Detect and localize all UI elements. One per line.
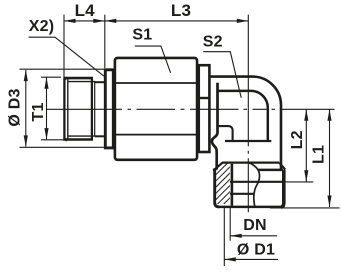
thread major top [63, 77, 93, 80]
D3 reference top [20, 68, 117, 70]
nut top face [222, 161, 279, 163]
dimension D1 line [224, 258, 278, 260]
hex flat edge bottom [114, 134, 198, 136]
nut bottom face [219, 206, 281, 209]
arrow L3 right [237, 19, 249, 23]
break-out section wavy line [247, 162, 260, 207]
undercut top [95, 81, 105, 83]
nut chamfer edge line [258, 169, 283, 172]
svg-text:L2: L2 [289, 130, 306, 149]
thread runout [91, 78, 93, 139]
junction dot at nut corner [213, 168, 217, 172]
elbow outer contour [209, 77, 281, 170]
arrow T1 up [44, 77, 48, 89]
DN extension line [229, 207, 231, 241]
arrow D3 up [24, 70, 28, 82]
arrow L4 right [93, 19, 105, 23]
D3 reference bottom [20, 146, 106, 148]
leader S1 [135, 46, 171, 73]
svg-text:T1: T1 [30, 102, 47, 121]
svg-text:S2: S2 [203, 34, 223, 51]
dimension L4 L3 line [64, 20, 248, 22]
D1 extension line [223, 207, 225, 266]
thread minor top [68, 81, 95, 83]
arrow T1 down [44, 128, 48, 140]
arrow L1 down [327, 196, 331, 208]
centerline vertical of elbow leg [247, 15, 249, 213]
nut top-left chamfer [215, 163, 223, 170]
svg-text:X2): X2) [29, 18, 55, 35]
svg-text:L4: L4 [75, 1, 96, 20]
nut right edge [281, 170, 284, 207]
svg-text:S1: S1 [132, 27, 152, 44]
dimension L2 line [305, 109, 307, 182]
elbow left wall [212, 83, 218, 170]
extension line stud face [63, 15, 65, 77]
nut thread relief line [230, 193, 254, 195]
centerline extension right (L1/L2 top reference) [284, 108, 335, 110]
undercut bottom [95, 135, 105, 137]
arrow D1 left [224, 257, 236, 261]
L1 reference bottom [270, 207, 340, 209]
male stud end face [64, 77, 67, 141]
hex body S1 [115, 58, 197, 160]
dimension L1 line [329, 109, 331, 207]
centerline main axis [46, 108, 284, 110]
leader X2 [29, 37, 105, 76]
T1 reference top [41, 76, 61, 78]
extension line collar face [104, 15, 106, 68]
svg-text:DN: DN [243, 217, 267, 234]
nut thread end line [230, 181, 286, 183]
svg-text:L3: L3 [171, 1, 191, 20]
leader S2 [203, 52, 241, 98]
sealing collar D3 [105, 70, 113, 148]
arrow L2 down [304, 170, 308, 182]
hex flat edge top [114, 82, 198, 84]
dimension D3 line [25, 70, 27, 147]
nut top-right chamfer [279, 163, 285, 170]
arrow L1 up [327, 109, 331, 121]
elbow inner contour [217, 91, 268, 140]
arrow L2 up [304, 109, 308, 121]
arrowheads [24, 19, 332, 262]
arrow DN left [230, 234, 242, 238]
elbow internal step [218, 126, 233, 140]
stud chamfer line [67, 79, 69, 140]
swivel nut S2 left edge [215, 169, 220, 207]
thread runout thin line [94, 82, 96, 137]
arrow L3 left [105, 19, 117, 23]
nut bore wall [231, 164, 234, 206]
L2 reference bottom [286, 181, 314, 183]
T1 reference bottom [41, 139, 76, 141]
thread minor bottom [68, 135, 95, 137]
svg-text:Ø D3: Ø D3 [7, 88, 24, 126]
arrow D3 down [24, 135, 28, 147]
thread major bottom [63, 138, 93, 141]
arrow L4 left [64, 19, 76, 23]
svg-text:Ø D1: Ø D1 [237, 241, 275, 258]
dimension DN line [230, 235, 277, 237]
dimension T1 line [46, 77, 48, 139]
svg-text:L1: L1 [311, 145, 328, 164]
body nipple collar [199, 65, 210, 152]
female thread start line [225, 140, 271, 142]
nipple bore edge top [200, 97, 209, 99]
